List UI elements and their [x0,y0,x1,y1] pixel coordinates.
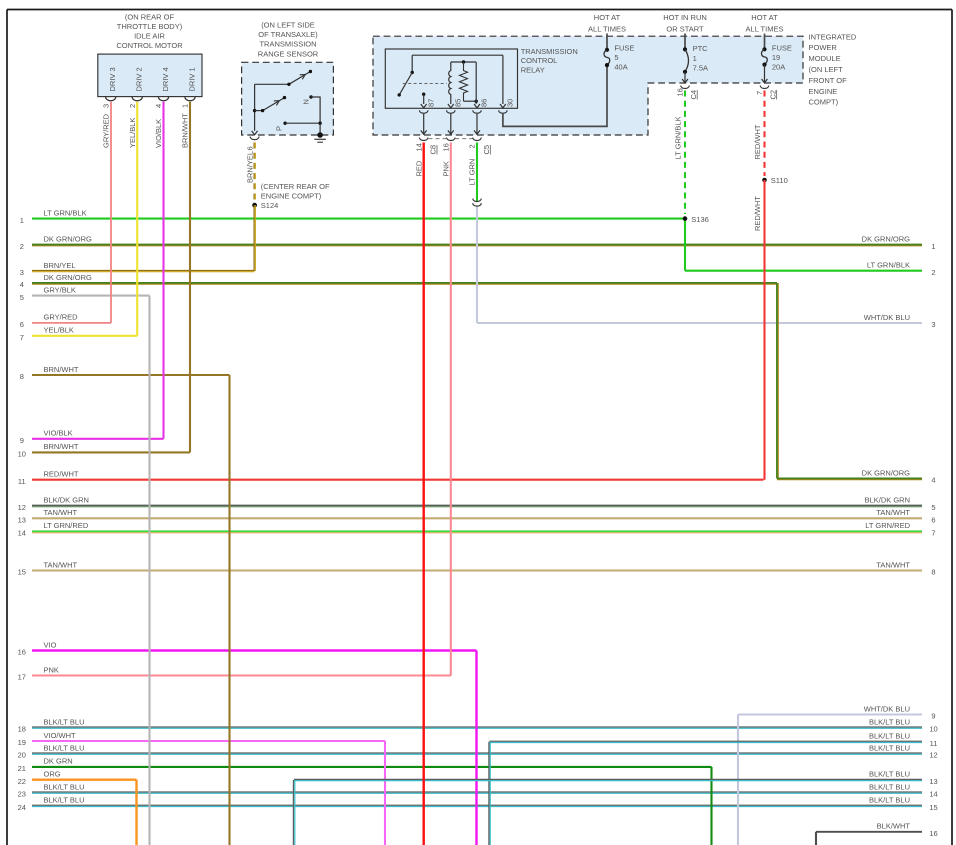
svg-text:N: N [301,99,310,104]
relay pin 30 internal wire [502,55,504,104]
svg-text:12: 12 [929,751,937,760]
wire right row 9 WHT/DK BLU [737,715,739,845]
svg-text:12: 12 [18,503,26,512]
wire row 18 BLK/LT BLU [32,726,922,728]
svg-text:TRANSMISSION: TRANSMISSION [259,40,316,49]
svg-text:HOT AT: HOT AT [751,13,778,22]
svg-text:VIO: VIO [44,640,57,649]
svg-text:BLK/LT BLU: BLK/LT BLU [44,743,85,752]
svg-text:FUSE: FUSE [772,43,792,52]
relay pin 86 internal wire [475,62,477,104]
svg-text:9: 9 [931,712,935,721]
svg-text:87: 87 [426,99,435,107]
wire row 23 BLK/LT BLU [32,791,922,793]
svg-text:3: 3 [101,104,110,108]
svg-text:DK GRN/ORG: DK GRN/ORG [44,273,93,282]
wire VIO/WHT vertical (row 19 down) [384,741,386,845]
svg-text:LT GRN/RED: LT GRN/RED [44,521,89,530]
svg-text:BRN/YEL: BRN/YEL [245,151,254,183]
wire row 2 DK GRN/ORG [32,244,922,246]
wire row 12 BLK/DK GRN [32,504,922,506]
svg-text:RED/WHT: RED/WHT [753,124,762,159]
svg-text:11: 11 [18,477,26,486]
svg-text:13: 13 [18,516,26,525]
svg-text:7: 7 [931,529,935,538]
svg-text:COMPT): COMPT) [809,98,839,107]
svg-text:2: 2 [931,268,935,277]
svg-text:21: 21 [18,764,26,773]
svg-text:30: 30 [506,99,515,107]
wire GRY/RED vertical (row 6 up to IACM pin 3) [110,102,112,323]
svg-text:(CENTER REAR OF: (CENTER REAR OF [261,182,330,191]
svg-text:PTC: PTC [693,44,709,53]
wire PNK from relay C8-16 to row 17 [450,143,452,676]
svg-text:3: 3 [20,268,24,277]
svg-text:C2: C2 [768,90,777,100]
svg-text:16: 16 [442,143,451,151]
svg-text:RELAY: RELAY [521,66,545,75]
svg-text:FRONT OF: FRONT OF [809,76,848,85]
transmission range sensor box [242,62,334,135]
wire row 24 BLK/LT BLU [32,804,922,806]
svg-text:GRY/RED: GRY/RED [44,313,79,322]
wire right row 2 LT GRN/BLK from S136 [684,219,686,271]
splice S124 [252,203,257,208]
svg-text:DRIV 3: DRIV 3 [108,67,117,91]
svg-text:16: 16 [929,829,937,838]
svg-text:DRIV 1: DRIV 1 [187,67,196,91]
wire row 17 PNK [32,674,451,676]
svg-text:BLK/LT BLU: BLK/LT BLU [869,770,910,779]
wire right row 13 BLK/LT BLU [292,780,294,845]
svg-text:CONTROL: CONTROL [521,56,558,65]
wire row 14 LT GRN/RED [32,530,922,532]
svg-text:1: 1 [931,242,935,251]
svg-text:BRN/WHT: BRN/WHT [181,113,190,148]
svg-text:RED/WHT: RED/WHT [753,196,762,231]
svg-text:86: 86 [480,99,489,107]
wire right row 16 BLK/WHT [815,832,817,845]
svg-text:S124: S124 [261,201,279,210]
relay pin 87 lead to C8-14 [423,114,425,134]
svg-text:TAN/WHT: TAN/WHT [876,508,910,517]
svg-text:1: 1 [693,54,697,63]
svg-text:8: 8 [20,372,24,381]
svg-text:2: 2 [20,242,24,251]
svg-text:16: 16 [676,88,685,96]
svg-text:OF TRANSAXLE): OF TRANSAXLE) [258,30,318,39]
svg-text:VIO/BLK: VIO/BLK [154,119,163,148]
svg-text:19: 19 [18,738,26,747]
range sensor switch contact lower [253,109,256,112]
svg-text:LT GRN/BLK: LT GRN/BLK [44,208,87,217]
svg-text:85: 85 [454,99,463,107]
svg-text:P: P [274,126,283,131]
relay pin 30 [500,104,506,108]
wire row 21 DK GRN [32,766,712,768]
svg-text:10: 10 [929,725,937,734]
svg-text:LT GRN/BLK: LT GRN/BLK [674,116,683,159]
svg-text:1: 1 [20,216,24,225]
svg-text:4: 4 [20,280,24,289]
wire row 3 BRN/YEL [32,270,255,272]
connector C2 pin 7 [760,86,769,89]
svg-text:C4: C4 [689,90,698,100]
svg-text:18: 18 [18,725,26,734]
svg-text:WHT/DK BLU: WHT/DK BLU [864,704,910,713]
border frame [7,9,952,11]
svg-text:2: 2 [468,144,477,148]
svg-text:7.5A: 7.5A [693,64,708,73]
svg-text:DK GRN/ORG: DK GRN/ORG [862,468,911,477]
wire row 16 VIO [32,649,477,651]
svg-text:HOT AT: HOT AT [594,13,621,22]
wire right row 4 DK GRN/ORG vertical from row 4 [776,283,778,479]
svg-text:10: 10 [18,450,26,459]
svg-text:5: 5 [20,293,24,302]
svg-text:MODULE: MODULE [809,54,841,63]
svg-text:6: 6 [20,320,24,329]
svg-text:GRY/RED: GRY/RED [101,113,110,148]
relay pin 85 lead to C8-16 [450,114,452,134]
svg-text:BRN/WHT: BRN/WHT [44,442,79,451]
ground at range sensor [319,123,321,135]
svg-text:ENGINE: ENGINE [809,87,838,96]
svg-text:17: 17 [18,673,26,682]
relay internal top rail [412,54,503,56]
svg-text:C8: C8 [429,145,438,155]
wire row 11 RED/WHT [32,479,764,481]
svg-text:WHT/DK BLU: WHT/DK BLU [864,313,910,322]
wire GRY/BLK vertical (row 5 down) [148,296,150,845]
svg-text:BLK/LT BLU: BLK/LT BLU [44,782,85,791]
wire BRN/YEL from S124 to row 3 [253,205,255,271]
svg-text:LT GRN: LT GRN [468,159,477,186]
svg-text:BLK/LT BLU: BLK/LT BLU [869,796,910,805]
svg-text:8: 8 [931,568,935,577]
svg-text:OR START: OR START [666,24,704,33]
svg-text:TAN/WHT: TAN/WHT [44,508,78,517]
wire BRN/WHT vertical (row 10 up to IACM pin 1) [189,102,191,453]
svg-text:DK GRN: DK GRN [44,757,73,766]
svg-text:IDLE AIR: IDLE AIR [134,32,165,41]
svg-text:(ON REAR OF: (ON REAR OF [125,13,175,22]
svg-text:7: 7 [20,333,24,342]
svg-text:19: 19 [772,53,780,62]
range sensor switch contact upper [289,72,311,85]
svg-text:14: 14 [18,529,26,538]
svg-text:TRANSMISSION: TRANSMISSION [521,47,578,56]
svg-text:VIO/WHT: VIO/WHT [44,731,76,740]
svg-text:RANGE SENSOR: RANGE SENSOR [258,49,319,58]
svg-text:PNK: PNK [442,161,451,176]
svg-text:4: 4 [931,476,935,485]
relay pin 87 [421,104,427,108]
svg-text:BLK/LT BLU: BLK/LT BLU [44,796,85,805]
svg-text:GRY/BLK: GRY/BLK [44,285,76,294]
svg-text:ALL TIMES: ALL TIMES [746,24,784,33]
relay coil [451,61,476,63]
splice S110 [762,178,767,183]
svg-text:20A: 20A [772,62,785,71]
svg-text:RED: RED [414,160,423,176]
svg-text:16: 16 [18,648,26,657]
wire YEL/BLK vertical (row 7 up to IACM pin 2) [136,102,138,336]
svg-text:15: 15 [18,568,26,577]
wire right row 11 BLK/LT BLU [488,742,490,845]
svg-text:14: 14 [414,143,423,151]
svg-text:BLK/LT BLU: BLK/LT BLU [869,732,910,741]
svg-text:FUSE: FUSE [614,43,634,52]
svg-text:BLK/DK GRN: BLK/DK GRN [44,496,89,505]
relay pin 86 [474,104,480,108]
svg-text:14: 14 [929,790,937,799]
wire DK GRN vertical (row 21 down) [710,767,712,845]
svg-text:3: 3 [931,320,935,329]
svg-text:11: 11 [930,739,938,748]
svg-text:HOT IN RUN: HOT IN RUN [663,13,707,22]
svg-text:INTEGRATED: INTEGRATED [809,32,857,41]
svg-text:DK GRN/ORG: DK GRN/ORG [862,234,911,243]
svg-text:BLK/LT BLU: BLK/LT BLU [869,743,910,752]
svg-text:6: 6 [245,146,254,150]
wire LT GRN/BLK dashed from C4 to S136 [684,91,686,215]
wire VIO vertical (row 16 down) [475,651,477,845]
range sensor pin 6 connector [250,137,259,140]
svg-text:BLK/LT BLU: BLK/LT BLU [869,782,910,791]
svg-text:(ON LEFT SIDE: (ON LEFT SIDE [261,20,315,29]
svg-text:YEL/BLK: YEL/BLK [44,326,74,335]
relay switch [411,71,414,74]
wire row 4 DK GRN/ORG [32,282,777,284]
relay pin 30 wire to fuse 5 [503,65,607,126]
svg-text:PNK: PNK [44,665,59,674]
wire row 8 BRN/WHT [32,374,230,376]
svg-text:24: 24 [18,803,26,812]
svg-text:5: 5 [931,503,935,512]
transmission control relay box [385,49,517,108]
svg-text:TAN/WHT: TAN/WHT [876,560,910,569]
wire row 20 BLK/LT BLU [32,752,922,754]
wire RED/WHT dashed from C2 to S110 [763,91,765,177]
svg-text:DK GRN/ORG: DK GRN/ORG [44,234,93,243]
svg-text:S136: S136 [691,215,709,224]
svg-text:BLK/WHT: BLK/WHT [877,822,911,831]
svg-text:YEL/BLK: YEL/BLK [128,118,137,148]
svg-text:DRIV 2: DRIV 2 [135,67,144,91]
wire row 9 VIO/BLK [32,438,164,440]
wire right row 3 WHT/DK BLU from connector C5 drop [476,207,478,323]
wire RED/WHT from S110 down to row 11 [763,180,765,480]
wire ORG vertical (row 22 down) [135,780,137,845]
svg-text:22: 22 [18,777,26,786]
wire LT GRN from relay C5-2 to inline connector [476,143,478,202]
svg-text:13: 13 [929,777,937,786]
svg-text:TAN/WHT: TAN/WHT [44,560,78,569]
svg-text:BLK/LT BLU: BLK/LT BLU [44,717,85,726]
svg-text:LT GRN/BLK: LT GRN/BLK [867,261,910,270]
svg-text:BRN/WHT: BRN/WHT [44,365,79,374]
wire row 13 TAN/WHT [32,517,922,519]
connector C4 pin 16 [681,86,690,89]
relay pin 86 lead to C5-2 [476,114,478,134]
relay pin 85 [448,104,454,108]
wire row 6 GRY/RED [32,322,111,324]
svg-text:4: 4 [154,104,163,108]
svg-text:23: 23 [18,790,26,799]
svg-text:ALL TIMES: ALL TIMES [588,24,626,33]
inline connector on LT GRN wire [473,199,482,202]
svg-text:7: 7 [755,91,764,95]
wire row 5 GRY/BLK [32,295,150,297]
svg-text:BLK/DK GRN: BLK/DK GRN [865,496,910,505]
svg-text:15: 15 [929,803,937,812]
svg-text:ORG: ORG [44,770,61,779]
svg-text:S110: S110 [771,176,788,185]
svg-text:20: 20 [18,751,26,760]
splice S136 [683,216,688,221]
svg-text:LT GRN/RED: LT GRN/RED [865,521,910,530]
svg-text:POWER: POWER [809,43,838,52]
wire row 15 TAN/WHT [32,569,922,571]
svg-text:RED/WHT: RED/WHT [44,470,79,479]
wire row 22 ORG [32,779,137,781]
integrated power module box [373,36,803,135]
wire BRN/YEL dashed from range sensor to S124 [253,143,255,202]
svg-text:40A: 40A [614,62,627,71]
svg-text:C5: C5 [482,145,491,155]
svg-text:BRN/YEL: BRN/YEL [44,261,76,270]
svg-text:ENGINE COMPT): ENGINE COMPT) [261,191,322,200]
range sensor internal wiring [255,83,289,85]
relay resistor [462,60,465,63]
svg-text:1: 1 [181,104,190,108]
wire row 1 LT GRN/BLK [32,218,685,220]
svg-text:2: 2 [128,104,137,108]
svg-text:VIO/BLK: VIO/BLK [44,429,73,438]
svg-text:CONTROL MOTOR: CONTROL MOTOR [116,41,183,50]
wire row 10 BRN/WHT [32,451,190,453]
svg-text:6: 6 [931,516,935,525]
svg-text:BLK/LT BLU: BLK/LT BLU [869,717,910,726]
wire RED from relay C8-14 down [423,143,425,845]
wire row 7 YEL/BLK [32,335,137,337]
svg-text:DRIV 4: DRIV 4 [161,67,170,91]
wire row 19 VIO/WHT [32,740,385,742]
wire BRN/WHT vertical (row 8 down) [228,375,230,845]
svg-text:5: 5 [614,53,618,62]
idle air control motor box [98,54,202,97]
svg-text:THROTTLE BODY): THROTTLE BODY) [117,22,183,31]
wire VIO/BLK vertical (row 9 up to IACM pin 4) [162,102,164,439]
svg-text:9: 9 [20,436,24,445]
svg-text:(ON LEFT: (ON LEFT [809,65,844,74]
